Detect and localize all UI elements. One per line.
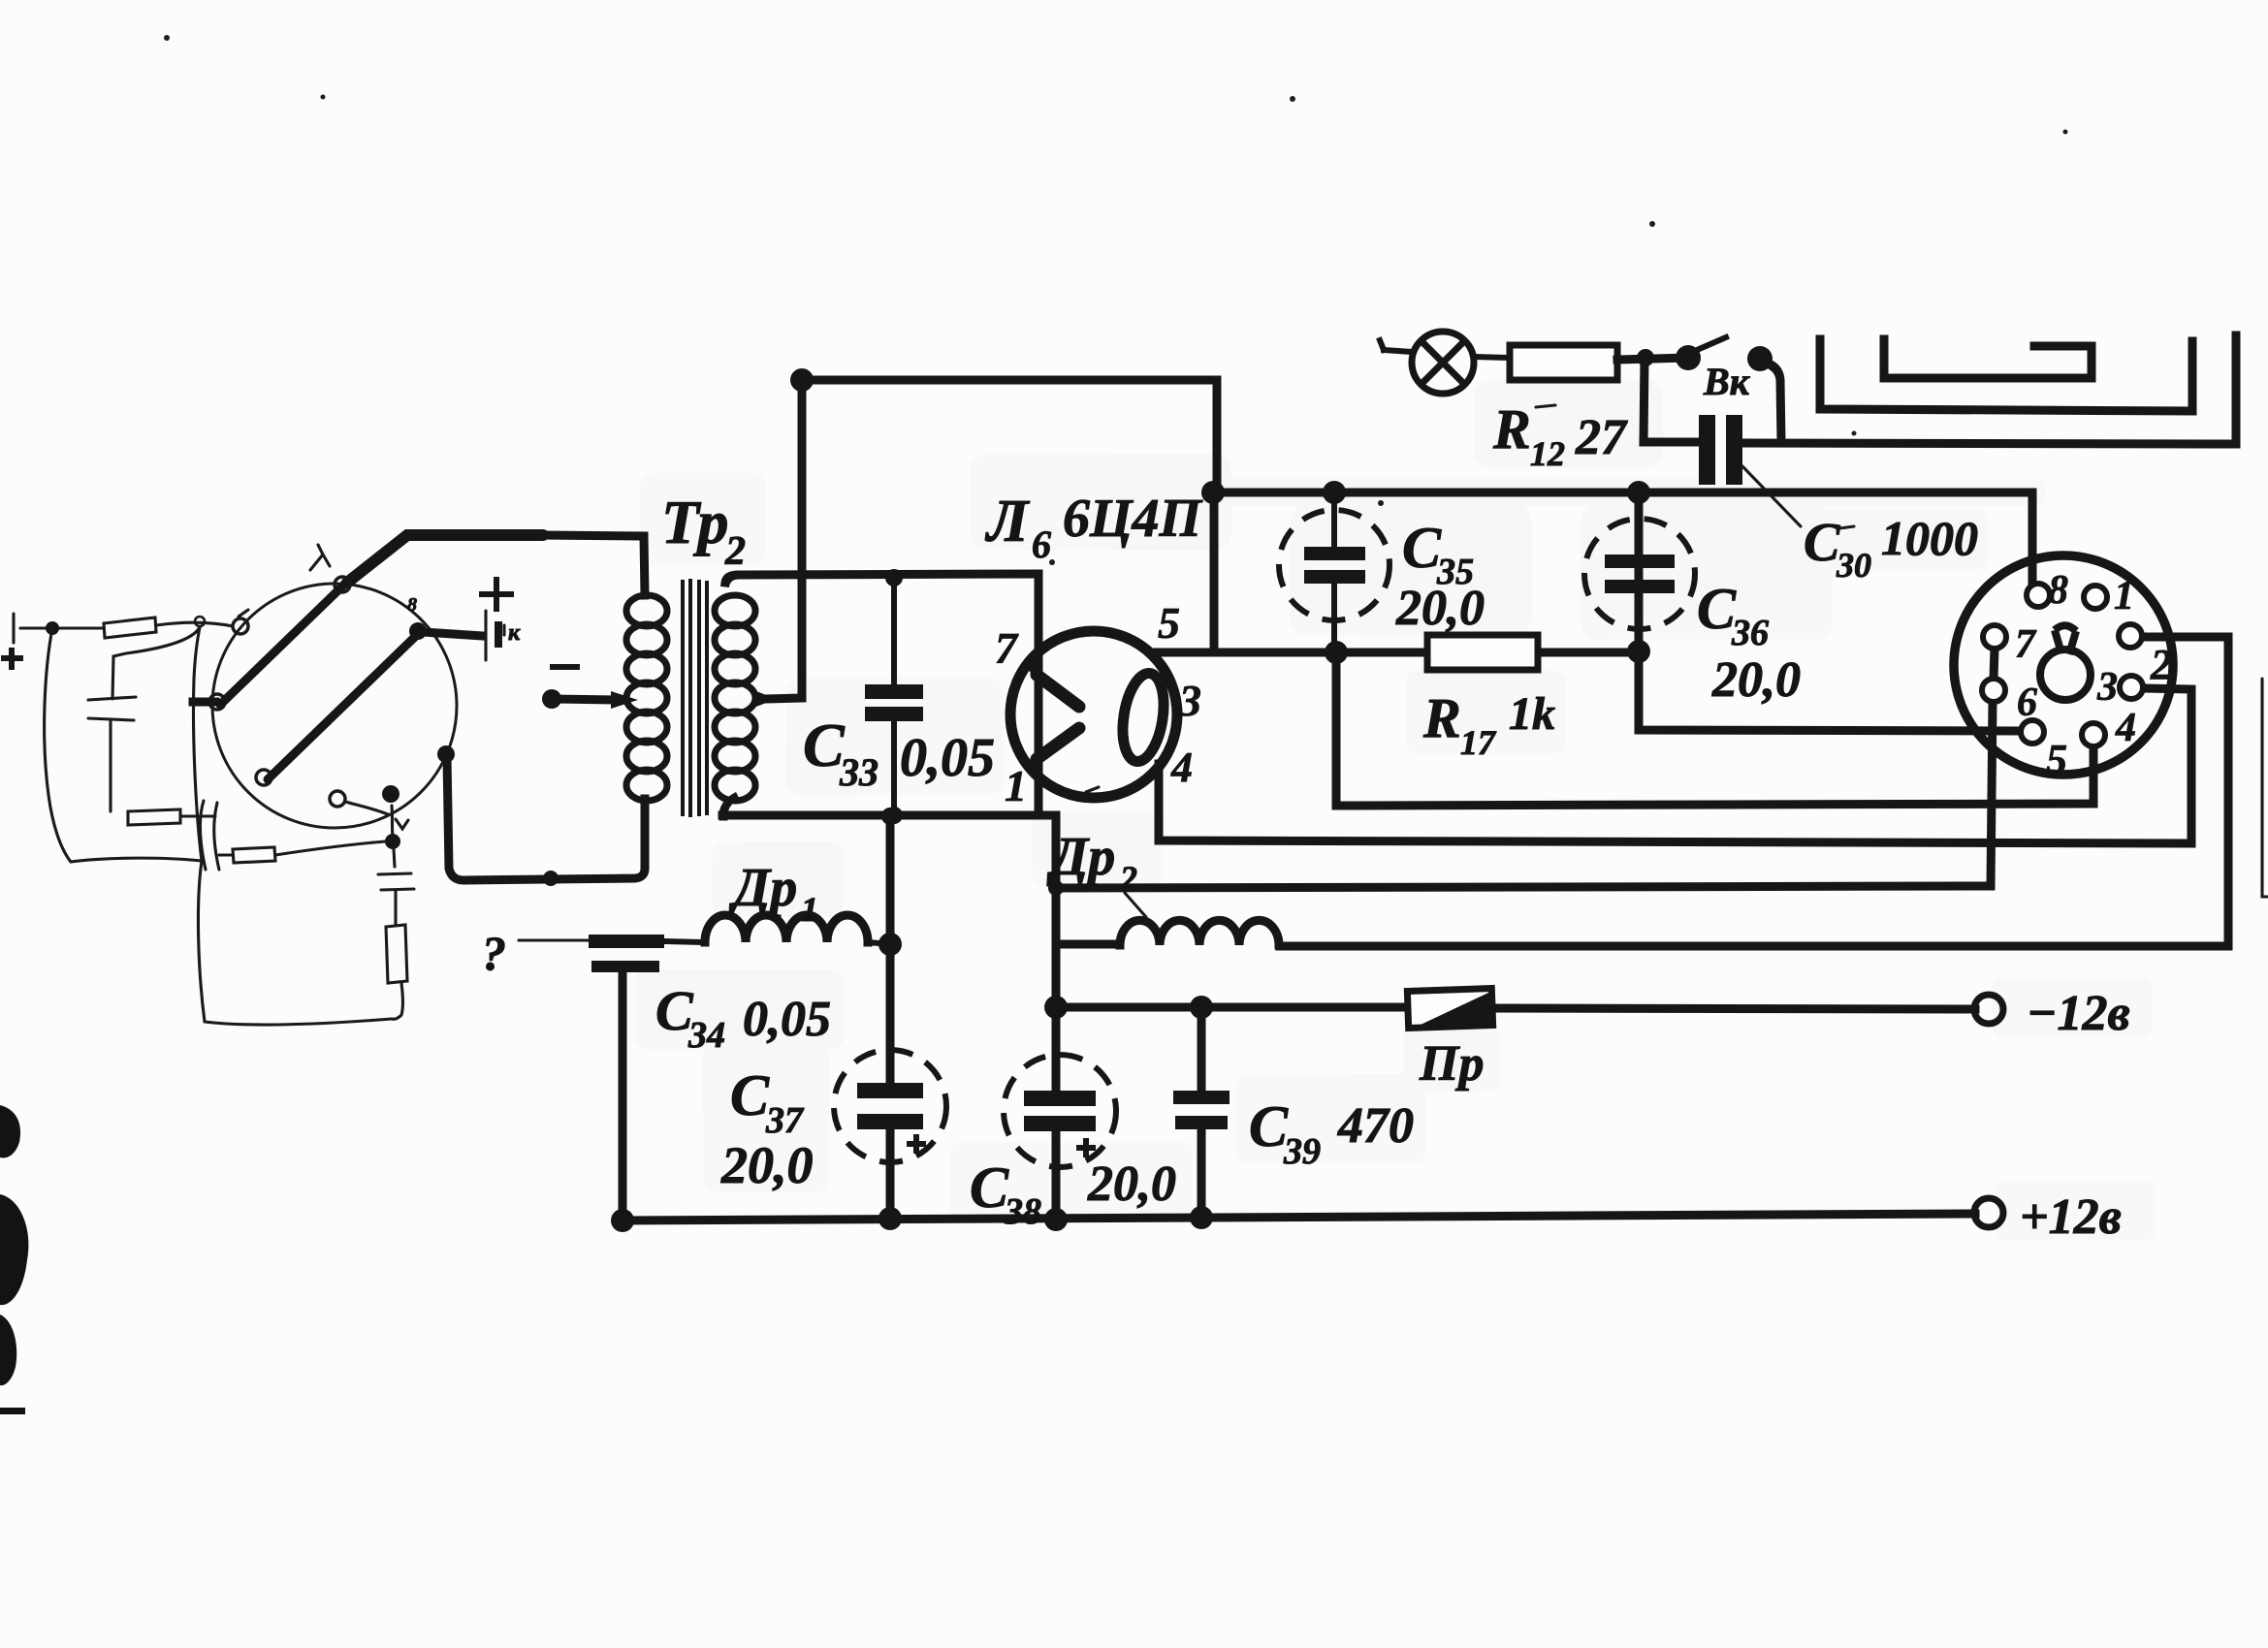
svg-text:20,0: 20,0 bbox=[720, 1136, 814, 1194]
svg-text:17: 17 bbox=[1460, 723, 1497, 762]
svg-text:к: к bbox=[508, 620, 521, 646]
svg-text:С: С bbox=[1804, 513, 1840, 573]
svg-text:3: 3 bbox=[1178, 676, 1201, 725]
svg-text:Л: Л bbox=[984, 489, 1031, 555]
svg-text:+12в: +12в bbox=[2020, 1189, 2122, 1245]
svg-text:12: 12 bbox=[1530, 434, 1565, 473]
svg-text:3: 3 bbox=[2096, 665, 2118, 710]
svg-text:2: 2 bbox=[2150, 641, 2172, 688]
svg-text:С: С bbox=[1402, 516, 1442, 580]
svg-text:R: R bbox=[1422, 686, 1461, 749]
svg-text:?: ? bbox=[482, 926, 506, 980]
svg-text:1k: 1k bbox=[1509, 688, 1555, 740]
svg-text:Вк: Вк bbox=[1703, 360, 1751, 403]
svg-text:37: 37 bbox=[765, 1100, 805, 1141]
svg-text:36: 36 bbox=[1731, 613, 1769, 653]
svg-text:4: 4 bbox=[1170, 744, 1193, 791]
svg-text:1: 1 bbox=[1005, 761, 1027, 810]
svg-text:470: 470 bbox=[1337, 1098, 1414, 1154]
svg-text:2: 2 bbox=[724, 529, 746, 574]
svg-text:8: 8 bbox=[2048, 568, 2068, 613]
svg-text:С: С bbox=[1249, 1094, 1289, 1158]
svg-text:Др: Др bbox=[728, 858, 797, 918]
svg-text:1: 1 bbox=[2114, 574, 2134, 618]
svg-text:Пр: Пр bbox=[1419, 1036, 1484, 1092]
svg-text:20,0: 20,0 bbox=[1395, 581, 1485, 636]
svg-text:Др: Др bbox=[1046, 827, 1115, 887]
svg-text:С: С bbox=[970, 1156, 1009, 1220]
svg-text:33: 33 bbox=[839, 750, 878, 794]
svg-text:7: 7 bbox=[2015, 622, 2037, 667]
svg-text:0,05: 0,05 bbox=[743, 992, 831, 1047]
svg-text:27: 27 bbox=[1575, 410, 1628, 465]
svg-text:0,05: 0,05 bbox=[900, 728, 995, 788]
svg-text:1000: 1000 bbox=[1881, 511, 1978, 565]
svg-text:38: 38 bbox=[1004, 1191, 1041, 1232]
svg-text:4: 4 bbox=[2115, 706, 2136, 750]
svg-text:1: 1 bbox=[801, 890, 818, 929]
svg-text:−12в: −12в bbox=[2027, 986, 2130, 1041]
svg-text:20,0: 20,0 bbox=[1087, 1157, 1176, 1212]
svg-text:5: 5 bbox=[2046, 736, 2067, 783]
svg-text:6: 6 bbox=[2017, 681, 2037, 725]
svg-text:8: 8 bbox=[407, 594, 417, 616]
svg-text:2: 2 bbox=[1119, 859, 1137, 898]
svg-text:20,0: 20,0 bbox=[1711, 652, 1801, 708]
svg-text:R: R bbox=[1492, 397, 1531, 460]
svg-text:7: 7 bbox=[995, 623, 1019, 673]
svg-text:30: 30 bbox=[1836, 546, 1871, 585]
svg-text:5: 5 bbox=[1158, 598, 1180, 648]
svg-text:6: 6 bbox=[1032, 523, 1051, 566]
svg-text:С: С bbox=[730, 1063, 770, 1127]
svg-text:Тр: Тр bbox=[661, 488, 729, 556]
svg-text:39: 39 bbox=[1283, 1131, 1321, 1172]
svg-text:34: 34 bbox=[687, 1015, 725, 1056]
svg-text:6Ц4П: 6Ц4П bbox=[1063, 489, 1203, 549]
svg-text:С: С bbox=[1697, 577, 1737, 641]
